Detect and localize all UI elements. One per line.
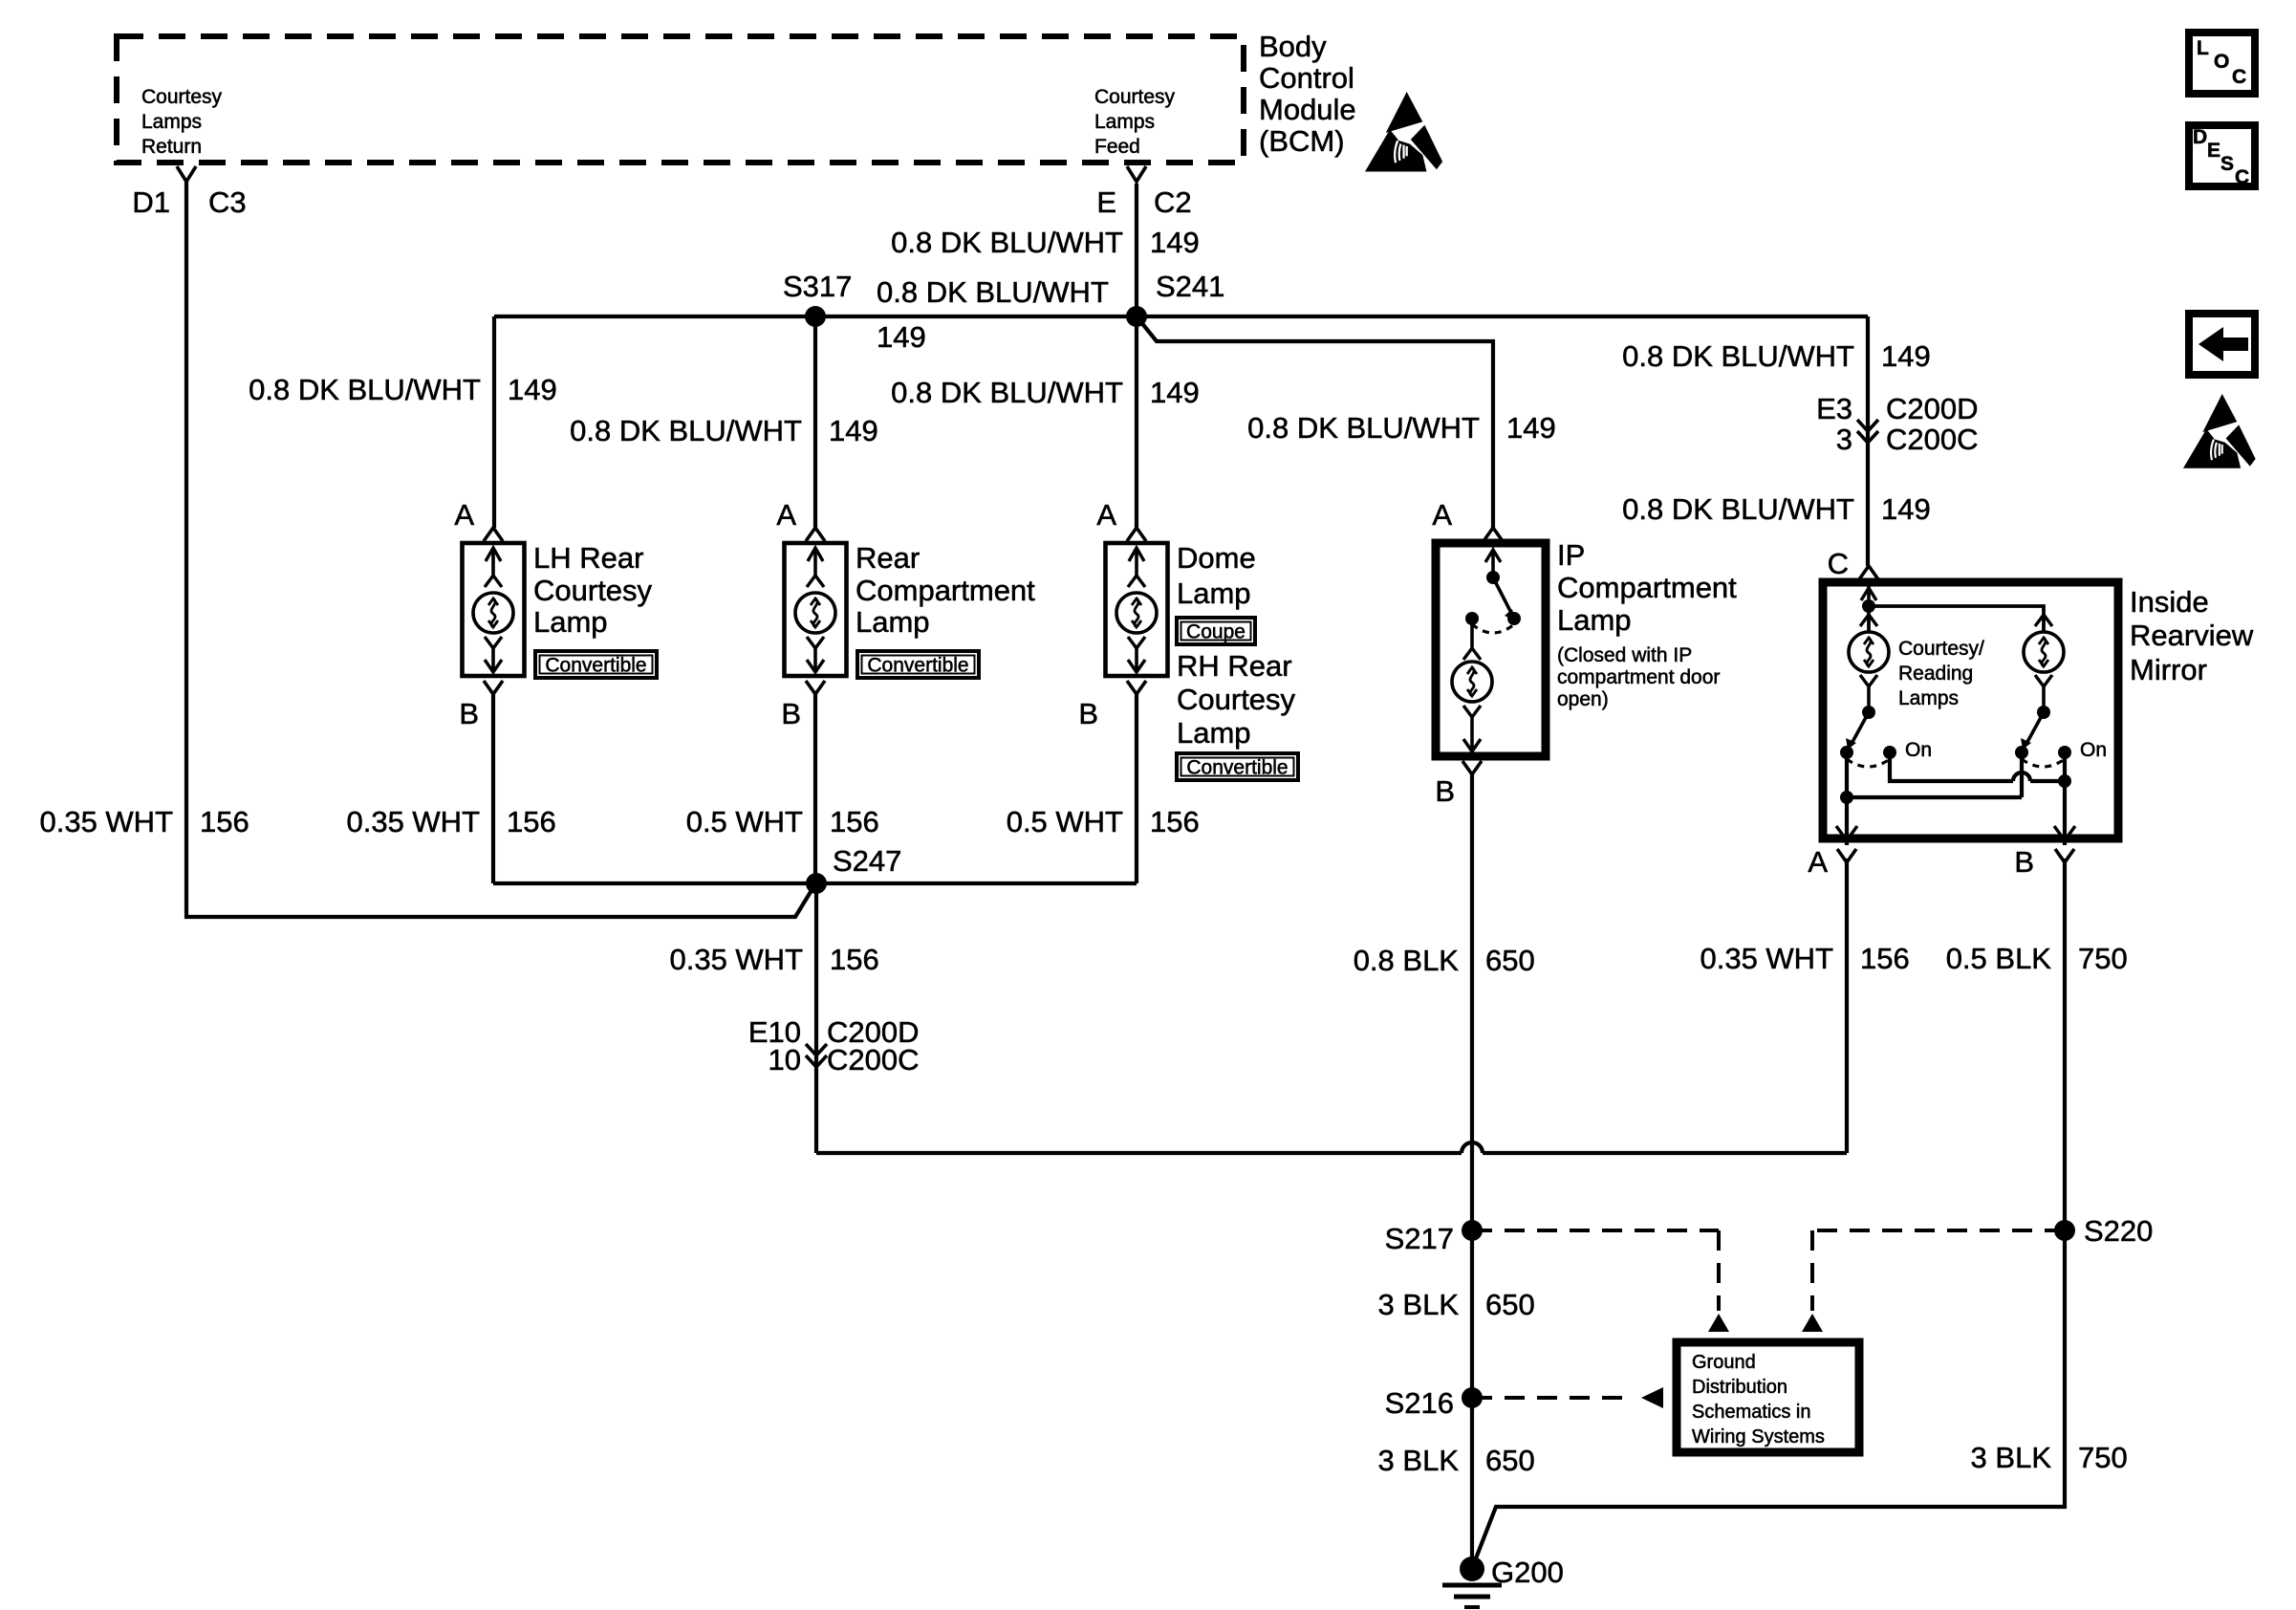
svg-text:D1: D1 bbox=[132, 185, 170, 219]
svg-text:0.5 WHT: 0.5 WHT bbox=[686, 805, 803, 838]
svg-text:L: L bbox=[2197, 37, 2209, 59]
svg-text:C200C: C200C bbox=[827, 1043, 920, 1077]
svg-text:3 BLK: 3 BLK bbox=[1378, 1444, 1460, 1477]
svg-text:0.8 DK BLU/WHT: 0.8 DK BLU/WHT bbox=[1247, 411, 1480, 445]
svg-text:Lamp: Lamp bbox=[533, 605, 608, 639]
svg-text:A: A bbox=[1432, 498, 1452, 532]
svg-text:3: 3 bbox=[1836, 423, 1852, 456]
svg-text:0.8 DK BLU/WHT: 0.8 DK BLU/WHT bbox=[249, 373, 481, 406]
svg-text:156: 156 bbox=[507, 805, 556, 838]
svg-text:E: E bbox=[2207, 140, 2220, 162]
svg-text:S: S bbox=[2220, 153, 2234, 175]
svg-text:149: 149 bbox=[1150, 226, 1200, 259]
svg-text:Lamps: Lamps bbox=[141, 111, 202, 133]
svg-text:Courtesy: Courtesy bbox=[1094, 86, 1176, 108]
svg-text:156: 156 bbox=[1860, 942, 1910, 975]
svg-text:149: 149 bbox=[877, 320, 926, 354]
svg-text:Lamp: Lamp bbox=[1557, 603, 1632, 637]
svg-text:149: 149 bbox=[1150, 376, 1200, 409]
svg-text:compartment door: compartment door bbox=[1557, 666, 1720, 688]
svg-text:Distribution: Distribution bbox=[1692, 1377, 1787, 1398]
svg-text:A: A bbox=[776, 498, 796, 532]
svg-text:LH Rear: LH Rear bbox=[533, 541, 643, 575]
svg-text:Lamps: Lamps bbox=[1094, 111, 1155, 133]
svg-text:0.8 DK BLU/WHT: 0.8 DK BLU/WHT bbox=[891, 226, 1123, 259]
svg-text:650: 650 bbox=[1485, 1288, 1535, 1321]
svg-text:750: 750 bbox=[2078, 1441, 2128, 1474]
svg-text:0.5 WHT: 0.5 WHT bbox=[1007, 805, 1123, 838]
svg-text:Inside: Inside bbox=[2130, 585, 2209, 619]
svg-text:Compartment: Compartment bbox=[1557, 571, 1737, 604]
svg-text:Convertible: Convertible bbox=[1186, 757, 1288, 779]
svg-text:Wiring Systems: Wiring Systems bbox=[1692, 1426, 1825, 1447]
svg-text:Feed: Feed bbox=[1094, 136, 1140, 158]
svg-text:S241: S241 bbox=[1156, 270, 1224, 303]
svg-text:B: B bbox=[459, 697, 479, 730]
svg-text:149: 149 bbox=[1881, 492, 1931, 526]
svg-text:0.35 WHT: 0.35 WHT bbox=[669, 943, 803, 976]
svg-text:Mirror: Mirror bbox=[2130, 653, 2207, 686]
svg-text:C: C bbox=[2235, 166, 2249, 188]
svg-text:Control: Control bbox=[1259, 61, 1354, 95]
svg-text:S220: S220 bbox=[2084, 1214, 2153, 1248]
svg-text:C: C bbox=[1828, 547, 1849, 580]
svg-text:C: C bbox=[2232, 66, 2246, 88]
svg-text:Coupe: Coupe bbox=[1186, 621, 1245, 643]
svg-text:S216: S216 bbox=[1385, 1386, 1454, 1420]
svg-text:156: 156 bbox=[1150, 805, 1200, 838]
svg-text:open): open) bbox=[1557, 688, 1609, 710]
svg-text:156: 156 bbox=[830, 805, 879, 838]
svg-text:Ground: Ground bbox=[1692, 1352, 1756, 1373]
svg-text:0.8 DK BLU/WHT: 0.8 DK BLU/WHT bbox=[891, 376, 1123, 409]
svg-text:Schematics in: Schematics in bbox=[1692, 1402, 1811, 1423]
svg-text:0.8 DK BLU/WHT: 0.8 DK BLU/WHT bbox=[570, 414, 802, 447]
svg-text:(BCM): (BCM) bbox=[1259, 124, 1345, 158]
svg-text:E: E bbox=[1096, 185, 1116, 219]
svg-text:0.8 DK BLU/WHT: 0.8 DK BLU/WHT bbox=[1622, 492, 1854, 526]
svg-text:B: B bbox=[2014, 845, 2034, 879]
svg-text:0.35 WHT: 0.35 WHT bbox=[346, 805, 480, 838]
svg-text:S247: S247 bbox=[833, 844, 901, 878]
svg-text:Body: Body bbox=[1259, 30, 1327, 63]
svg-text:Dome: Dome bbox=[1177, 541, 1256, 575]
svg-text:156: 156 bbox=[830, 943, 879, 976]
svg-text:RH Rear: RH Rear bbox=[1177, 649, 1292, 683]
svg-text:0.8 DK BLU/WHT: 0.8 DK BLU/WHT bbox=[1622, 339, 1854, 373]
svg-text:A: A bbox=[1808, 845, 1828, 879]
svg-text:Lamp: Lamp bbox=[1177, 716, 1251, 750]
svg-text:S217: S217 bbox=[1385, 1222, 1454, 1255]
svg-text:C3: C3 bbox=[208, 185, 247, 219]
svg-text:A: A bbox=[1096, 498, 1116, 532]
svg-text:O: O bbox=[2214, 51, 2229, 73]
svg-text:650: 650 bbox=[1485, 1444, 1535, 1477]
svg-text:Module: Module bbox=[1259, 93, 1356, 126]
svg-text:C2: C2 bbox=[1154, 185, 1192, 219]
svg-text:B: B bbox=[1078, 697, 1098, 730]
svg-text:650: 650 bbox=[1485, 944, 1535, 977]
svg-text:On: On bbox=[2080, 739, 2107, 761]
svg-text:Rearview: Rearview bbox=[2130, 619, 2254, 652]
svg-text:Courtesy: Courtesy bbox=[141, 86, 223, 108]
svg-text:Lamp: Lamp bbox=[1177, 577, 1251, 610]
svg-text:B: B bbox=[1435, 774, 1455, 808]
svg-text:S317: S317 bbox=[783, 270, 852, 303]
svg-text:149: 149 bbox=[1881, 339, 1931, 373]
svg-text:IP: IP bbox=[1557, 538, 1585, 572]
svg-text:10: 10 bbox=[769, 1043, 801, 1077]
svg-text:0.35 WHT: 0.35 WHT bbox=[1700, 942, 1833, 975]
svg-text:Rear: Rear bbox=[856, 541, 920, 575]
svg-text:149: 149 bbox=[508, 373, 557, 406]
svg-text:Courtesy: Courtesy bbox=[533, 574, 653, 607]
svg-text:Courtesy/: Courtesy/ bbox=[1898, 638, 1984, 660]
svg-text:Convertible: Convertible bbox=[867, 655, 968, 677]
svg-text:3 BLK: 3 BLK bbox=[1378, 1288, 1460, 1321]
svg-text:Courtesy: Courtesy bbox=[1177, 683, 1296, 716]
svg-text:C200C: C200C bbox=[1886, 423, 1979, 456]
svg-text:D: D bbox=[2193, 126, 2207, 148]
svg-text:(Closed with IP: (Closed with IP bbox=[1557, 644, 1692, 666]
svg-text:149: 149 bbox=[1506, 411, 1556, 445]
svg-text:0.35 WHT: 0.35 WHT bbox=[39, 805, 173, 838]
svg-text:Lamp: Lamp bbox=[856, 605, 930, 639]
svg-text:149: 149 bbox=[829, 414, 878, 447]
svg-text:C200D: C200D bbox=[1886, 392, 1979, 425]
svg-text:On: On bbox=[1905, 739, 1932, 761]
svg-text:A: A bbox=[454, 498, 474, 532]
svg-text:B: B bbox=[781, 697, 801, 730]
svg-text:Convertible: Convertible bbox=[545, 655, 646, 677]
svg-text:156: 156 bbox=[200, 805, 249, 838]
svg-text:0.8 DK BLU/WHT: 0.8 DK BLU/WHT bbox=[877, 275, 1109, 309]
svg-text:G200: G200 bbox=[1491, 1556, 1564, 1589]
svg-text:Lamps: Lamps bbox=[1898, 687, 1959, 709]
svg-text:Compartment: Compartment bbox=[856, 574, 1035, 607]
svg-text:Reading: Reading bbox=[1898, 663, 1973, 685]
svg-text:Return: Return bbox=[141, 136, 202, 158]
svg-text:E3: E3 bbox=[1816, 392, 1852, 425]
svg-text:3 BLK: 3 BLK bbox=[1971, 1441, 2052, 1474]
svg-text:0.8 BLK: 0.8 BLK bbox=[1354, 944, 1460, 977]
svg-text:0.5 BLK: 0.5 BLK bbox=[1946, 942, 2052, 975]
svg-text:750: 750 bbox=[2078, 942, 2128, 975]
